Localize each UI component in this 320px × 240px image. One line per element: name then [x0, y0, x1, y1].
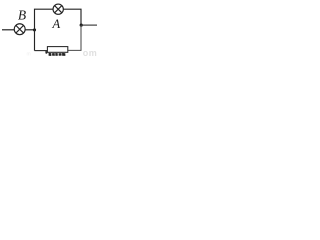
value label under resistor (illegible in source)	[45, 51, 65, 56]
wire right stub to edge	[81, 24, 97, 26]
svg-text:B: B	[18, 7, 26, 22]
wire left lead of lamp B	[2, 29, 14, 31]
wire left vertical	[35, 9, 54, 50]
lamp A	[53, 4, 63, 14]
wire from lamp B to junction	[25, 29, 34, 31]
wire right vertical lower	[68, 25, 81, 50]
svg-text:m: m	[27, 52, 31, 58]
lamp B	[14, 24, 25, 35]
node junction dot right	[80, 24, 83, 27]
svg-text:om: om	[83, 48, 97, 57]
wire top right from lamp A to right corner and down	[63, 9, 81, 25]
wire bottom left from corner to resistor	[35, 50, 48, 52]
node junction dot left	[33, 28, 36, 31]
resistor R	[47, 47, 67, 53]
svg-text:A: A	[52, 17, 61, 31]
